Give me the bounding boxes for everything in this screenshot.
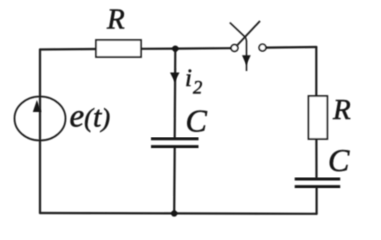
current arrow i2 on middle branch xyxy=(170,73,180,83)
wire right: C2 down to bottom-right corner xyxy=(316,188,318,214)
svg-text:R: R xyxy=(106,4,125,36)
switch S1 closing-motion arrowhead xyxy=(242,55,251,65)
switch S1 right contact xyxy=(259,44,266,51)
switch S1 closing-motion arrow xyxy=(230,23,247,71)
label i2 subscript 2 xyxy=(193,79,202,99)
label R2 value R xyxy=(332,94,351,126)
wire top-left: corner to R1 xyxy=(40,48,96,51)
wire left: bottom-left corner up through source xyxy=(39,50,41,214)
capacitor C1 (middle) plates xyxy=(151,139,199,147)
node A junction dot (top) xyxy=(172,45,178,51)
label C1 value C xyxy=(186,103,208,139)
switch S1 left contact xyxy=(231,45,238,52)
wire right: corner down to R2 xyxy=(315,47,317,97)
wire: node A to switch left contact xyxy=(175,47,231,50)
svg-text:C: C xyxy=(328,142,350,178)
resistor R2 (right vertical) xyxy=(309,96,328,139)
source U1 arrow (points up) xyxy=(33,100,42,112)
wire middle: node A down to capacitor C1 xyxy=(174,49,177,138)
svg-text:i: i xyxy=(185,65,192,92)
svg-text:C: C xyxy=(186,103,208,139)
resistor R1 (top horizontal) xyxy=(96,40,141,57)
wire: R1 to node A xyxy=(141,47,175,49)
wire middle: C1 down to bottom node xyxy=(173,148,176,214)
capacitor C2 (right) plates xyxy=(295,179,341,187)
label R1 value R xyxy=(106,4,125,36)
svg-text:e(t): e(t) xyxy=(70,99,111,135)
switch S1 blade xyxy=(237,21,260,46)
svg-text:R: R xyxy=(332,94,351,126)
label current i2 xyxy=(185,65,192,92)
source U1 e(t) circle xyxy=(15,97,66,141)
wire right: R2 to capacitor C2 xyxy=(315,139,317,178)
wire: switch right contact to top-right corner xyxy=(266,46,316,49)
svg-text:2: 2 xyxy=(193,79,202,99)
label C2 value C xyxy=(328,142,350,178)
wire bottom xyxy=(40,212,317,215)
label source value e(t) xyxy=(70,99,111,135)
node B junction dot (bottom) xyxy=(171,210,177,216)
